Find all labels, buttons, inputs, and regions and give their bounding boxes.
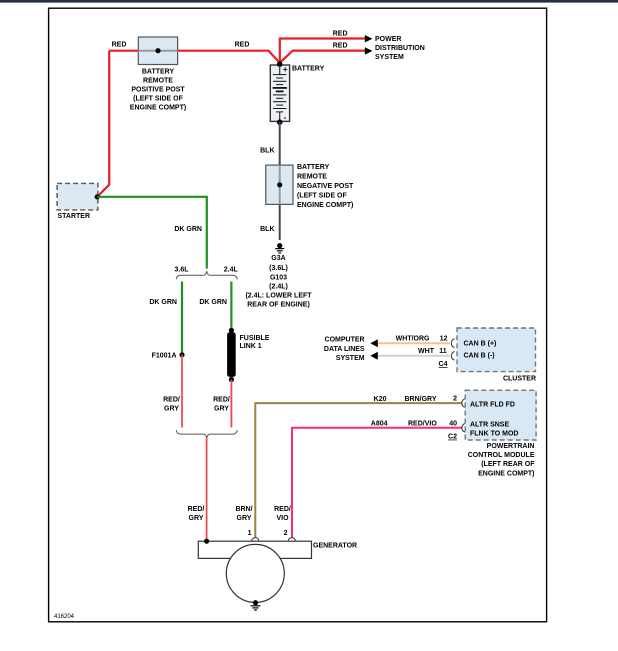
top navy bar [0,0,618,3]
battery remote negative post box [266,165,293,204]
svg-text:SYSTEM: SYSTEM [336,355,365,362]
starter S1 [57,183,98,210]
svg-text:3.6L: 3.6L [174,266,189,273]
wire RED battery to power distribution arrow 1 [280,39,366,63]
svg-text:C4: C4 [439,361,448,368]
wire RED/GRY right branch [230,380,232,428]
svg-text:RED/: RED/ [274,506,291,513]
arrow to computer data lines 2 [370,352,378,360]
diagram frame border [49,8,547,622]
wire RED/GRY left branch [181,355,183,428]
svg-text:+: + [283,65,288,74]
svg-text:(2.4L: LOWER LEFT: (2.4L: LOWER LEFT [245,293,312,300]
svg-text:2.4L: 2.4L [224,266,239,273]
svg-text:A804: A804 [371,420,388,427]
svg-text:GRY: GRY [189,515,204,522]
svg-text:DK GRN: DK GRN [199,299,227,306]
wire RED left drop to starter [97,51,109,197]
svg-text:(2.4L): (2.4L) [269,284,288,291]
svg-text:GRY: GRY [164,406,179,413]
svg-text:FLNK TO MOD: FLNK TO MOD [470,431,518,438]
svg-text:(LEFT SIDE OF: (LEFT SIDE OF [297,192,348,199]
svg-text:SYSTEM: SYSTEM [375,54,404,61]
wire BRN/GRY generator to PCM [255,403,462,537]
svg-text:ENGINE COMPT): ENGINE COMPT) [130,105,186,112]
splice brace (3.6L / 2.4L split) [176,271,237,279]
svg-text:RED: RED [235,41,250,48]
generator [198,541,311,602]
wire RED battery to power distribution arrow 2 [280,51,366,63]
wire WHT cluster [378,355,450,357]
svg-text:GENERATOR: GENERATOR [313,542,357,549]
svg-text:CAN B (+): CAN B (+) [464,340,497,347]
generator pin 1 bump [252,538,259,542]
svg-text:ENGINE COMPT): ENGINE COMPT) [478,470,534,477]
svg-text:GRY: GRY [214,406,229,413]
svg-text:(LEFT REAR OF: (LEFT REAR OF [481,461,535,468]
svg-text:RED: RED [112,41,127,48]
svg-text:RED/: RED/ [188,506,205,513]
svg-text:REAR OF ENGINE): REAR OF ENGINE) [247,302,310,309]
battery B1 [270,61,289,125]
svg-text:(LEFT SIDE OF: (LEFT SIDE OF [133,96,184,103]
merge brace [176,430,237,438]
svg-text:1: 1 [248,530,252,537]
cluster connector arcs [451,339,454,348]
svg-text:FUSIBLE: FUSIBLE [240,335,270,342]
svg-text:DK GRN: DK GRN [174,226,202,233]
pcm connector arcs [462,399,465,408]
wire BLK negative post to ground [279,204,281,240]
svg-text:ALTR FLD FD: ALTR FLD FD [470,401,515,408]
splice F1001A [179,352,184,357]
wire WHT/ORG cluster [378,342,450,344]
cluster box [457,328,536,372]
svg-text:CONTROL MODULE: CONTROL MODULE [468,452,535,459]
svg-text:CAN B (-): CAN B (-) [464,353,495,360]
svg-text:POWER: POWER [375,36,401,43]
generator pin 2 bump [288,538,295,542]
wire BLK battery to negative post [279,122,281,165]
svg-text:POSITIVE POST: POSITIVE POST [131,87,185,94]
svg-text:2: 2 [284,530,288,537]
svg-text:416204: 416204 [54,614,75,620]
svg-text:WHT/ORG: WHT/ORG [396,335,430,342]
arrow to computer data lines 1 [370,339,378,347]
svg-text:RED: RED [333,31,348,38]
svg-text:STARTER: STARTER [58,213,91,220]
svg-text:12: 12 [440,335,448,342]
svg-text:2: 2 [453,395,457,402]
svg-text:RED/: RED/ [213,397,230,404]
arrow to POWER [365,35,373,42]
svg-text:COMPUTER: COMPUTER [325,337,365,344]
wire RED/GRY to generator [206,438,208,541]
svg-text:40: 40 [449,420,457,427]
wire RED/VIO generator to PCM [292,428,463,538]
generator ground [251,600,261,610]
svg-text:RED/VIO: RED/VIO [408,420,437,427]
svg-text:BLK: BLK [260,226,274,233]
svg-text:RED/: RED/ [163,397,180,404]
svg-text:REMOTE: REMOTE [297,173,327,180]
arrow to DISTRIBUTION [365,47,373,54]
svg-text:GRY: GRY [237,515,252,522]
svg-text:K20: K20 [374,396,387,403]
svg-text:DISTRIBUTION: DISTRIBUTION [375,45,425,52]
svg-text:BATTERY: BATTERY [292,66,325,73]
svg-text:ALTR SNSE: ALTR SNSE [470,421,509,428]
svg-text:C2: C2 [448,434,457,441]
svg-text:ENGINE COMPT): ENGINE COMPT) [297,202,353,209]
svg-text:F1001A: F1001A [152,352,177,359]
svg-text:BATTERY: BATTERY [297,164,330,171]
svg-text:BATTERY: BATTERY [142,69,175,76]
svg-text:RED: RED [333,43,348,50]
svg-text:CLUSTER: CLUSTER [503,375,536,382]
svg-text:-: - [284,113,287,122]
svg-text:BRN/: BRN/ [235,506,252,513]
svg-text:REMOTE: REMOTE [143,78,173,85]
wire RED from positive post to battery [109,51,280,63]
svg-text:G103: G103 [270,274,287,281]
svg-text:VIO: VIO [276,515,289,522]
svg-text:G3A: G3A [271,255,285,262]
wire DK GRN 3.6L branch [181,282,183,355]
svg-text:NEGATIVE POST: NEGATIVE POST [297,183,354,190]
fusible link 1 [229,328,234,333]
svg-text:POWERTRAIN: POWERTRAIN [487,443,535,450]
svg-text:LINK 1: LINK 1 [240,343,262,350]
wire DK GRN 2.4L branch [230,282,232,332]
svg-text:(3.6L): (3.6L) [269,265,288,272]
svg-text:11: 11 [439,348,447,355]
svg-text:WHT: WHT [418,348,435,355]
battery remote positive post box [138,37,177,65]
powertrain control module box [465,390,536,440]
svg-text:DATA LINES: DATA LINES [324,346,365,353]
ground G3A [275,243,284,253]
svg-text:DK GRN: DK GRN [149,299,177,306]
svg-text:BRN/GRY: BRN/GRY [404,396,436,403]
svg-text:BLK: BLK [260,147,274,154]
junction dot on generator [204,539,209,544]
wire DK GRN starter to split [97,197,207,269]
